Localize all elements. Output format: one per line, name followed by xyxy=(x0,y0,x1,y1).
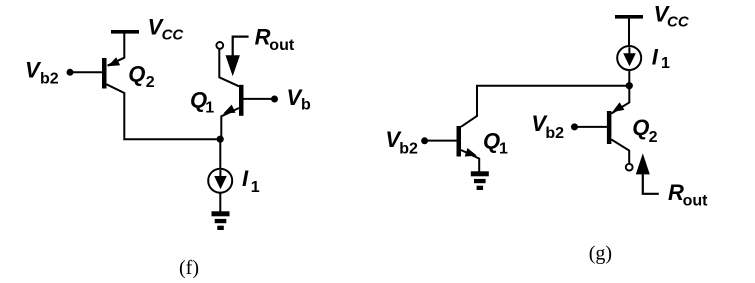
svg-text:(g): (g) xyxy=(589,243,612,265)
wire I1 to node B (g) xyxy=(628,69,630,85)
svg-text:2: 2 xyxy=(146,74,155,91)
wire VCC to I1 (g) xyxy=(628,19,630,47)
label Vb2 (g, Q1) xyxy=(385,127,418,158)
transistor Q2 emitter arrow (PNP, points into bar) xyxy=(108,57,120,66)
label Rout (g) xyxy=(668,180,708,210)
wire Q2 collector to node A (f) xyxy=(107,84,221,139)
wire VCC to Q2 emitter (f) xyxy=(108,34,125,66)
wire Vb2 to Q2 base (g) xyxy=(575,126,607,128)
svg-text:out: out xyxy=(683,193,709,210)
label I1 (f) xyxy=(242,166,260,196)
wire Q1 emitter to node A (f) xyxy=(221,108,239,139)
svg-text:I: I xyxy=(652,44,659,69)
svg-text:1: 1 xyxy=(205,100,214,117)
label Vb2 (f) xyxy=(25,57,59,87)
label VCC (g) xyxy=(654,1,690,30)
label Vb (f) xyxy=(287,85,312,113)
transistor Q2 emitter arrow (PNP, points into bar) xyxy=(612,102,624,112)
svg-text:b2: b2 xyxy=(545,125,564,142)
node Vb terminal dot (f) xyxy=(271,96,278,103)
wire Q1 emitter to ground (g) xyxy=(461,150,479,172)
transistor Q1 emitter arrow (NPN, points away from bar) xyxy=(223,105,235,114)
label Q2 (f) xyxy=(128,62,155,92)
label Vb2 (g, Q2) xyxy=(531,111,564,142)
node Rout port open circle (f) xyxy=(216,42,223,49)
svg-text:b2: b2 xyxy=(399,141,418,158)
transistor Q1 base bar (f) xyxy=(239,85,244,116)
svg-text:Q: Q xyxy=(483,129,500,154)
VCC supply bar (f) xyxy=(111,30,139,34)
wire Vb2 to Q2 base (f) xyxy=(70,71,102,73)
label Rout (f) xyxy=(255,24,295,54)
label VCC (f) xyxy=(148,15,185,44)
node Vb2 terminal dot (g, Q1) xyxy=(421,137,428,144)
svg-text:Q: Q xyxy=(128,62,145,87)
ground (g) xyxy=(471,171,489,190)
label Q1 (g) xyxy=(483,129,508,158)
current source I1 (f) xyxy=(208,169,232,193)
transistor Q1 base bar (g) xyxy=(457,126,462,157)
wire node B to Q2 emitter (g) xyxy=(611,86,629,114)
ground (f) xyxy=(212,211,230,230)
node Rout port open circle (g) xyxy=(626,164,633,171)
svg-text:1: 1 xyxy=(661,55,670,72)
svg-text:CC: CC xyxy=(667,14,690,31)
node B junction dot (g) xyxy=(626,82,633,89)
svg-text:R: R xyxy=(668,180,684,205)
svg-text:Q: Q xyxy=(632,115,649,140)
svg-text:out: out xyxy=(269,37,295,54)
transistor Q2 base bar (f) xyxy=(102,58,107,89)
svg-text:b: b xyxy=(301,96,311,113)
svg-text:R: R xyxy=(255,24,271,49)
svg-text:(f): (f) xyxy=(179,257,199,279)
wire I1 to ground (f) xyxy=(219,192,221,212)
VCC supply bar (g) xyxy=(615,15,643,19)
wire Q2 collector to Rout port (g) xyxy=(611,140,629,164)
svg-text:b2: b2 xyxy=(40,71,59,88)
wire node A to current source I1 (f) xyxy=(219,139,221,169)
wire Vb2 to Q1 base (g) xyxy=(425,140,457,142)
Rout probe arrow (f) xyxy=(226,37,249,77)
node Vb2 terminal dot (g, Q2) xyxy=(571,123,578,130)
label I1 (g) xyxy=(652,44,670,72)
label Q2 (g) xyxy=(632,115,657,146)
svg-text:I: I xyxy=(242,166,249,191)
label Q1 (f) xyxy=(190,88,214,117)
svg-text:1: 1 xyxy=(499,141,508,158)
svg-text:1: 1 xyxy=(251,179,260,196)
wire Q1 base to Vb (f) xyxy=(244,98,275,100)
current source I1 (g) xyxy=(617,46,641,70)
node A junction dot (f) xyxy=(217,136,224,143)
svg-text:2: 2 xyxy=(649,129,658,146)
wire node B to Q1 collector (g) xyxy=(461,86,629,127)
svg-text:CC: CC xyxy=(162,26,185,43)
wire Q1 collector to Rout port (f) xyxy=(219,49,239,87)
transistor Q1 emitter arrow (NPN, points away from bar) xyxy=(465,148,477,157)
node Vb2 terminal dot (f) xyxy=(67,69,74,76)
transistor Q2 base bar (g) xyxy=(607,111,612,144)
Rout probe arrow (g) xyxy=(636,153,659,193)
